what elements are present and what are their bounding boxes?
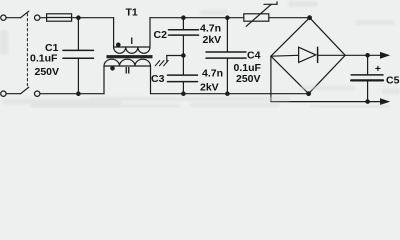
svg-text:C3: C3 bbox=[151, 73, 165, 85]
svg-text:4.7n: 4.7n bbox=[200, 23, 221, 35]
bridge rectifier B1 bbox=[310, 18, 346, 56]
wire bbox=[72, 17, 114, 19]
node C1 top bbox=[77, 16, 80, 19]
svg-text:C4: C4 bbox=[247, 50, 261, 62]
node C1 bottom bbox=[77, 92, 80, 95]
scan noise bbox=[0, 1, 400, 108]
node bridge bottom bbox=[307, 92, 311, 96]
node C3 bottom bbox=[182, 92, 185, 95]
ground bbox=[167, 55, 184, 57]
svg-text:250V: 250V bbox=[236, 73, 261, 85]
terminal bottom-left bbox=[1, 91, 6, 96]
terminal top-left bbox=[1, 15, 6, 20]
node bridge top bbox=[308, 16, 312, 20]
dc minus wire bbox=[270, 56, 272, 101]
wire bbox=[6, 17, 20, 19]
svg-text:250V: 250V bbox=[35, 66, 60, 78]
svg-text:I: I bbox=[131, 36, 134, 46]
svg-text:C5: C5 bbox=[386, 75, 400, 87]
svg-text:2kV: 2kV bbox=[203, 34, 222, 46]
svg-text:C2: C2 bbox=[154, 29, 168, 41]
svg-text:0.1uF: 0.1uF bbox=[30, 53, 58, 65]
node C4 bottom bbox=[226, 92, 229, 95]
ground node bbox=[182, 54, 185, 57]
rail to bridge bbox=[269, 17, 310, 19]
bottom rail right bbox=[151, 93, 309, 95]
capacitor C4 bbox=[226, 18, 228, 52]
dc plus wire bbox=[345, 54, 380, 56]
capacitor C5 bbox=[367, 55, 369, 74]
rail top mid bbox=[150, 17, 244, 19]
capacitor C3 bbox=[168, 74, 198, 76]
thermistor R1 bbox=[244, 14, 269, 21]
svg-text:4.7n: 4.7n bbox=[202, 68, 223, 80]
terminal top-second bbox=[35, 15, 40, 20]
node C2 top bbox=[182, 16, 185, 19]
transformer T1 winding II bbox=[103, 66, 105, 94]
switch S1b blade bbox=[21, 87, 29, 94]
capacitor C2 bbox=[182, 18, 184, 30]
terminal bottom-second bbox=[35, 91, 40, 96]
wire C2-C3 bbox=[182, 35, 184, 74]
node C5 top bbox=[366, 54, 369, 57]
bottom rail left bbox=[40, 93, 104, 95]
capacitor C1 bbox=[77, 18, 79, 50]
svg-text:2kV: 2kV bbox=[200, 82, 219, 94]
transformer T1 winding I bbox=[113, 18, 115, 47]
output arrow plus bbox=[380, 52, 390, 59]
wire bbox=[6, 93, 20, 95]
switch link dashed bbox=[26, 14, 28, 88]
fuse F1 bbox=[47, 14, 72, 21]
wire bbox=[40, 17, 47, 19]
node C5 bottom bbox=[366, 100, 369, 103]
node C4 top bbox=[226, 16, 229, 19]
output arrow minus bbox=[380, 98, 390, 105]
svg-text:II: II bbox=[125, 66, 130, 76]
background scan mottle bbox=[0, 0, 400, 108]
T1 core bbox=[107, 55, 153, 58]
bridge inner diode bbox=[271, 54, 299, 57]
switch S1a blade bbox=[21, 11, 29, 18]
svg-text:+: + bbox=[375, 64, 381, 75]
svg-text:T1: T1 bbox=[126, 7, 138, 19]
